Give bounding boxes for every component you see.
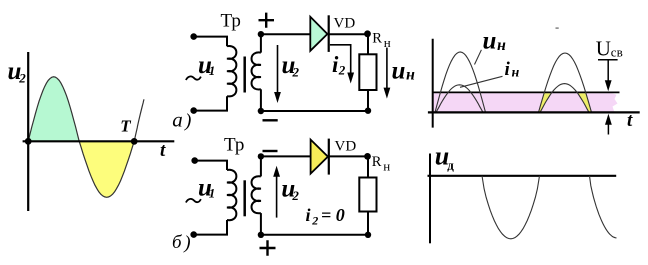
arrow u2 (a) pointing down: [277, 45, 279, 94]
transformer T1 primary winding (a): [227, 46, 236, 96]
transformer T2 primary winding (b): [227, 170, 236, 220]
svg-text:н: н: [383, 159, 390, 174]
svg-text:u: u: [392, 57, 406, 84]
wire: secondary bottom lead (a): [260, 89, 262, 111]
resistor Rn (b): [359, 178, 376, 212]
svg-text:1: 1: [209, 185, 216, 200]
node: secondary top junction dot (a): [258, 31, 264, 37]
svg-text:): ): [183, 233, 190, 254]
wire: primary top lead (b): [195, 161, 227, 170]
svg-text:U: U: [596, 37, 611, 61]
transformer T1 secondary winding (a): [252, 52, 261, 89]
wire: secondary bottom lead (b): [260, 213, 262, 235]
u2 sine curve stroke: [28, 77, 79, 142]
svg-text:н: н: [406, 67, 415, 84]
wire: top rail from secondary to diode (b): [261, 155, 311, 157]
node: load top junction dot (a): [364, 30, 371, 37]
wire: load top lead (a): [367, 34, 369, 55]
svg-text:i: i: [306, 205, 311, 225]
svg-text:а: а: [172, 107, 183, 131]
ud curve dip 1: [482, 176, 540, 239]
svg-text:T: T: [120, 117, 131, 136]
diode VD cathode bar (a): [328, 15, 330, 52]
node: origin dot: [25, 138, 32, 145]
wire: top rail from secondary to diode (a): [261, 33, 310, 35]
node: secondary bottom junction dot (a): [258, 108, 264, 114]
wire: load bottom lead (a): [367, 90, 369, 111]
u2 sine next-period continuation arc: [134, 99, 144, 141]
svg-text:2: 2: [292, 65, 300, 80]
wire: load bottom lead (b): [367, 212, 369, 235]
wire: secondary top lead (b): [260, 156, 262, 176]
wire: bottom rail (a): [261, 110, 368, 112]
minus sign (a): [263, 119, 278, 121]
svg-text:Тр: Тр: [221, 11, 241, 32]
svg-text:св: св: [611, 44, 623, 59]
svg-text:t: t: [160, 140, 166, 161]
right bottom plot horizontal axis: [428, 175, 617, 177]
pink band top line (Usv level): [433, 91, 620, 93]
svg-text:VD: VD: [334, 15, 356, 31]
in curve hump 1: [436, 85, 483, 113]
ud curve dip 2 (partial): [590, 176, 617, 238]
stray speck: [556, 27, 559, 28]
diode VD (b): [311, 140, 328, 174]
right bottom plot vertical axis: [429, 154, 431, 244]
minus sign (b): [263, 150, 278, 152]
right top plot horizontal axis (t): [428, 111, 640, 113]
left plot vertical axis (u2): [27, 52, 29, 211]
svg-text:б: б: [172, 232, 183, 253]
wire: bottom rail (b): [261, 234, 368, 236]
svg-text:Тр: Тр: [224, 135, 244, 156]
plus sign (a): [259, 13, 275, 28]
svg-text:н: н: [512, 65, 520, 80]
svg-text:1: 1: [209, 63, 216, 78]
node: primary terminal bottom (b): [190, 231, 197, 238]
svg-text:2: 2: [291, 188, 299, 203]
waveform plot of u2 : positive half-cycle (green fill): [28, 77, 79, 142]
wire: primary top lead (a): [194, 37, 227, 47]
node: load bottom junction dot (b): [365, 232, 371, 238]
wire: primary bottom lead (b): [194, 220, 227, 235]
diode VD cathode bar (b): [328, 139, 330, 175]
plus sign (b): [260, 240, 276, 256]
diode VD (a): [310, 17, 327, 51]
wire: load top lead (b): [367, 156, 369, 177]
node: period T dot: [131, 138, 138, 145]
svg-text:R: R: [372, 31, 382, 47]
svg-text:R: R: [372, 154, 382, 170]
svg-text:u: u: [483, 28, 497, 55]
svg-text:= 0: = 0: [321, 205, 345, 225]
svg-text:н: н: [497, 37, 506, 54]
wire: secondary top lead (a): [260, 34, 262, 52]
svg-text:2: 2: [18, 70, 26, 85]
pink band fill (conduction band): [433, 93, 612, 112]
pointer line for un label: [475, 50, 482, 65]
node: load bottom junction dot (a): [365, 108, 371, 114]
pointer line for in label: [460, 76, 503, 87]
svg-text:t: t: [627, 110, 633, 131]
node: primary terminal top (b): [191, 157, 198, 164]
left plot horizontal axis (t): [23, 140, 175, 142]
svg-text:2: 2: [338, 63, 346, 78]
Usv dimension tick: [598, 59, 618, 61]
svg-text:): ): [184, 111, 191, 132]
arrow i2 (a) hook: [330, 45, 351, 74]
node: secondary top junction dot (b): [258, 153, 264, 159]
label ~ (source b): [186, 199, 201, 203]
un curve hump 2: [539, 53, 592, 112]
label ~ (source a): [186, 76, 201, 80]
arrow un (a) pointing down: [386, 48, 388, 89]
waveform plot of u2 : negative half-cycle (yellow fill): [79, 141, 134, 197]
wire: top rail from diode to load (b): [329, 155, 368, 157]
arrow u2 (b) pointing up: [276, 175, 278, 218]
svg-text:2: 2: [311, 213, 318, 227]
svg-text:i: i: [505, 59, 511, 80]
un curve hump 1: [435, 52, 486, 112]
node: primary terminal bottom (a): [190, 107, 197, 114]
in curve hump 2: [540, 84, 589, 113]
transformer T1 core (a): [243, 57, 246, 93]
transformer T2 core (b): [243, 180, 246, 216]
svg-text:д: д: [447, 158, 454, 173]
svg-text:VD: VD: [335, 139, 357, 155]
wire: primary bottom lead (a): [194, 96, 227, 110]
right top plot vertical axis: [432, 39, 434, 128]
Usv dimension arrow down: [607, 60, 609, 82]
wire: top rail from diode to load (a): [329, 33, 368, 35]
node: secondary bottom junction dot (b): [258, 232, 264, 238]
transformer T2 secondary winding (b): [252, 176, 261, 213]
pink band ragged right edge: [612, 93, 618, 112]
node: load top junction dot (b): [364, 153, 371, 160]
node: primary terminal top (a): [190, 33, 197, 40]
Usv dimension arrow up (below axis): [607, 124, 609, 135]
resistor Rn (a): [359, 54, 376, 90]
